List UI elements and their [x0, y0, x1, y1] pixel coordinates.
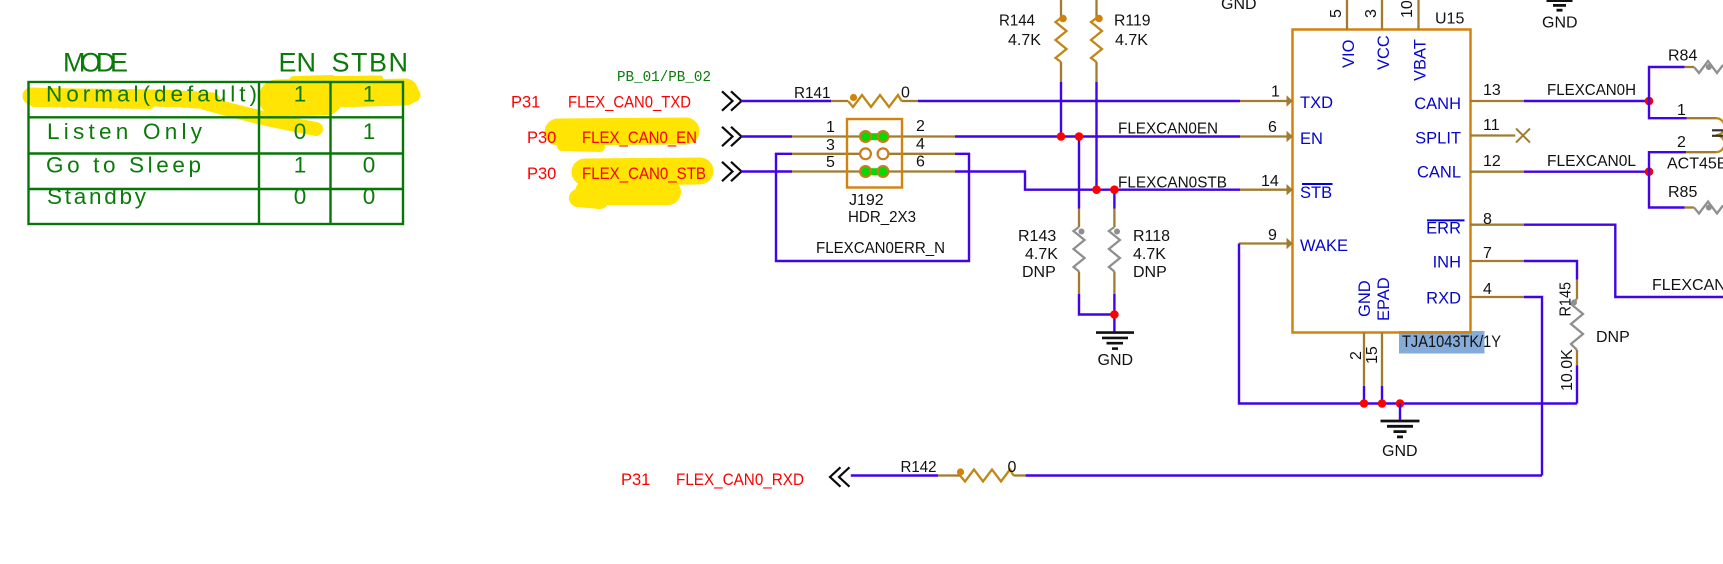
chevron out STB — [722, 162, 742, 181]
wire stub to ground symbol — [1399, 404, 1401, 421]
svg-text:TXD: TXD — [1300, 94, 1333, 112]
ground symbol below R118 — [1096, 333, 1134, 349]
IC U15 box — [1293, 30, 1471, 333]
pin 3 circle — [860, 148, 871, 159]
wire J192 pin 6 to U15 STB — [888, 170, 955, 172]
wire junction to choke pin 2 and R85 — [1649, 152, 1686, 207]
resistor R119 — [1091, 0, 1151, 82]
svg-text:EN: EN — [1300, 130, 1323, 148]
svg-text:11: 11 — [1483, 117, 1500, 134]
svg-text:R143: R143 — [1018, 228, 1056, 245]
svg-text:1: 1 — [826, 119, 835, 136]
svg-text:R141: R141 — [794, 85, 831, 102]
junction GND symbol — [1396, 399, 1405, 408]
svg-text:TJA1043TK/1Y: TJA1043TK/1Y — [1402, 333, 1501, 351]
wire net FLEXCAN0ERR_N loop J192 pin3 to pin4 — [792, 153, 860, 155]
connector J192 HDR_2X3 — [847, 119, 916, 226]
junction GND pin — [1360, 399, 1369, 408]
highlighter mark over table row 1 — [31, 79, 413, 129]
svg-text:2: 2 — [916, 118, 925, 135]
wire TXD R141 to U15 pin 1 — [918, 100, 1240, 102]
mode table — [29, 82, 404, 224]
resistor R84 (partial) — [1668, 48, 1723, 74]
svg-text:GND: GND — [1356, 280, 1374, 317]
svg-text:VBAT: VBAT — [1412, 39, 1430, 81]
svg-text:7: 7 — [1483, 245, 1492, 262]
wire RXD chevron to R142 — [851, 474, 938, 476]
svg-text:4.7K: 4.7K — [1133, 246, 1166, 263]
U15 top pin 5 VIO — [1346, 0, 1348, 30]
svg-text:1: 1 — [363, 119, 376, 144]
svg-text:12: 12 — [1483, 153, 1501, 170]
svg-text:2: 2 — [1677, 134, 1686, 151]
jumper green bar pins 5-6 — [863, 168, 887, 175]
svg-text:FLEX_CAN0_STB: FLEX_CAN0_STB — [582, 165, 706, 183]
junction FLEXCAN0H — [1645, 97, 1654, 106]
svg-text:4: 4 — [916, 136, 925, 153]
mode table header text — [63, 48, 408, 78]
svg-text:R118: R118 — [1133, 228, 1170, 245]
U15 pin 4 RXD stub — [1470, 296, 1524, 298]
svg-text:4.7K: 4.7K — [1008, 32, 1041, 49]
svg-text:5: 5 — [1328, 9, 1345, 18]
svg-text:13: 13 — [1483, 82, 1501, 99]
svg-text:8: 8 — [1483, 211, 1492, 228]
wire U15 GND pin to bus — [1363, 386, 1365, 404]
pin 4 circle — [878, 148, 889, 159]
junction R143/R118/GND — [1110, 310, 1119, 319]
resistor R85 (partial) — [1668, 184, 1723, 214]
svg-text:FLEX_CAN0_EN: FLEX_CAN0_EN — [582, 129, 697, 147]
svg-text:STB: STB — [1300, 184, 1332, 202]
svg-text:P30: P30 — [527, 165, 556, 183]
junction R144/EN — [1057, 132, 1066, 141]
svg-text:J192: J192 — [849, 192, 884, 209]
no-connect X on SPLIT — [1516, 129, 1530, 143]
junction EPAD pin — [1378, 399, 1387, 408]
resistor R142 — [901, 459, 1026, 482]
resistor R141 — [794, 85, 918, 108]
wire EN chevron to J192 pin 1 — [741, 135, 792, 137]
junction R143/EN — [1075, 132, 1084, 141]
svg-text:DNP: DNP — [1596, 329, 1630, 346]
U15 top pin 3 VCC — [1381, 0, 1383, 30]
resistor R143 (DNP) — [1018, 137, 1085, 295]
svg-text:0: 0 — [901, 85, 910, 102]
svg-text:4.7K: 4.7K — [1025, 246, 1058, 263]
svg-text:6: 6 — [916, 154, 925, 171]
svg-text:PB_01/PB_02: PB_01/PB_02 — [617, 69, 711, 86]
svg-text:0: 0 — [1008, 459, 1017, 476]
svg-text:1: 1 — [1271, 84, 1280, 101]
chevron in RXD — [830, 467, 850, 486]
svg-text:0: 0 — [363, 153, 376, 178]
svg-text:R85: R85 — [1668, 184, 1697, 201]
svg-text:ERR: ERR — [1426, 220, 1461, 238]
svg-text:4: 4 — [1483, 281, 1492, 298]
svg-text:6: 6 — [1268, 119, 1277, 136]
svg-text:EN: EN — [279, 48, 317, 78]
ground symbol below U15 — [1381, 421, 1420, 437]
svg-text:1: 1 — [294, 153, 307, 178]
wire R118 bottom to GND — [1113, 294, 1115, 332]
U15 pin 7 INH stub — [1470, 260, 1524, 262]
pin 5 circle — [860, 166, 871, 177]
pin 1 circle — [860, 131, 871, 142]
chevron out TXD — [722, 91, 742, 110]
svg-text:FLEX_CAN0_TXD: FLEX_CAN0_TXD — [568, 94, 691, 112]
svg-text:P31: P31 — [621, 471, 650, 489]
junction R119/STB — [1092, 185, 1101, 194]
svg-text:3: 3 — [1363, 9, 1380, 18]
wire WAKE to GND bus — [1239, 244, 1577, 404]
svg-text:DNP: DNP — [1133, 264, 1167, 281]
svg-text:VCC: VCC — [1375, 35, 1393, 70]
wire J192 pin 2 to U15 EN — [888, 135, 955, 137]
svg-text:1: 1 — [363, 82, 376, 107]
wire CANH to junction — [1524, 100, 1649, 102]
svg-text:R119: R119 — [1114, 13, 1151, 30]
choke ACT45B pin 1 lead — [1687, 117, 1717, 119]
svg-text:GND: GND — [1382, 443, 1418, 460]
U15 pin 11 SPLIT stub — [1470, 134, 1515, 136]
resistor R145 (DNP) — [1558, 280, 1630, 392]
svg-text:10: 10 — [1399, 0, 1416, 18]
resistor R118 (DNP) — [1109, 190, 1170, 294]
svg-text:GND: GND — [1221, 0, 1257, 13]
wire R119 to STB — [1095, 82, 1097, 190]
pin 6 circle — [878, 166, 889, 177]
svg-text:15: 15 — [1364, 346, 1381, 364]
svg-text:GND: GND — [1542, 15, 1578, 32]
svg-text:9: 9 — [1268, 227, 1277, 244]
svg-text:GND: GND — [1098, 352, 1134, 369]
wire ERR to right edge — [1524, 225, 1723, 297]
part value TJA1043TK/1Y with blue selection — [1399, 331, 1485, 354]
svg-text:Standby: Standby — [47, 184, 147, 209]
svg-text:R142: R142 — [901, 459, 937, 476]
svg-text:P31: P31 — [511, 94, 540, 112]
wire R142 to RXD vertical — [1026, 474, 1542, 476]
U15 pin 6 EN stub — [1240, 135, 1292, 137]
U15 bottom pin 2 GND — [1363, 333, 1365, 387]
svg-text:R144: R144 — [999, 13, 1035, 30]
jumper green bar pins 1-2 — [863, 133, 887, 140]
choke core lines — [1712, 130, 1723, 136]
highlighter mark over FLEX_CAN0_EN label — [558, 131, 686, 147]
wire INH to R145 — [1524, 261, 1577, 280]
chevron out EN — [722, 127, 742, 146]
svg-text:1: 1 — [294, 82, 307, 107]
resistor R144 — [999, 0, 1067, 82]
mode table rows text — [46, 82, 375, 210]
svg-text:0: 0 — [363, 184, 376, 209]
svg-text:FLEXCAN0ERR_N: FLEXCAN0ERR_N — [1652, 277, 1723, 294]
wire U15 EPAD pin to bus — [1381, 386, 1383, 404]
svg-text:HDR_2X3: HDR_2X3 — [848, 209, 916, 226]
svg-text:R145: R145 — [1558, 282, 1575, 317]
svg-text:FLEXCAN0EN: FLEXCAN0EN — [1118, 121, 1218, 138]
svg-text:3: 3 — [826, 137, 835, 154]
svg-text:CANL: CANL — [1417, 164, 1461, 182]
svg-text:5: 5 — [826, 154, 835, 171]
svg-text:VIO: VIO — [1340, 39, 1358, 68]
svg-text:0: 0 — [294, 119, 307, 144]
U15 top pin 10 VBAT — [1417, 0, 1419, 30]
wire STB chevron to J192 pin 5 — [741, 170, 792, 172]
wire R144 to EN — [1060, 82, 1062, 137]
U15 pin 13 CANH stub — [1470, 100, 1524, 102]
svg-text:0: 0 — [294, 184, 307, 209]
svg-text:FLEX_CAN0_RXD: FLEX_CAN0_RXD — [676, 471, 804, 489]
ground symbol top right (clipped) — [1540, 0, 1579, 10]
wire RXD down to bottom — [1524, 297, 1542, 476]
svg-text:CANH: CANH — [1414, 95, 1461, 113]
svg-text:FLEXCAN0L: FLEXCAN0L — [1547, 153, 1636, 170]
junction R118/STB — [1110, 185, 1119, 194]
U15 pin 14 STB stub — [1240, 189, 1292, 191]
U15 pin 8 ERR stub — [1470, 224, 1524, 226]
U15 bottom pin 15 EPAD — [1381, 333, 1383, 387]
U15 pin 9 WAKE stub — [1239, 242, 1292, 244]
wire CANL to junction — [1524, 170, 1649, 172]
wire R145 to GND bus — [1576, 366, 1578, 404]
junction FLEXCAN0L — [1645, 167, 1654, 176]
svg-text:WAKE: WAKE — [1300, 237, 1348, 255]
svg-text:INH: INH — [1433, 254, 1461, 272]
wire R143 bottom to GND junction — [1079, 294, 1114, 315]
svg-text:14: 14 — [1261, 173, 1279, 190]
svg-text:P30: P30 — [527, 129, 556, 147]
svg-text:SPLIT: SPLIT — [1415, 130, 1461, 148]
svg-text:10.0K: 10.0K — [1559, 349, 1576, 391]
pin 2 circle — [878, 131, 889, 142]
highlighter mark over FLEX_CAN0_STB label — [578, 171, 700, 200]
svg-text:EPAD: EPAD — [1375, 277, 1393, 321]
choke ACT45B windings (partial at edge) — [1716, 118, 1723, 152]
svg-text:FLEXCAN0ERR_N: FLEXCAN0ERR_N — [816, 240, 945, 257]
svg-text:1: 1 — [1677, 102, 1686, 119]
U15 pin 12 CANL stub — [1470, 171, 1524, 173]
svg-text:Go to Sleep: Go to Sleep — [46, 153, 201, 178]
wire TXD chevron to R141 — [741, 100, 831, 102]
svg-text:FLEXCAN0STB: FLEXCAN0STB — [1118, 175, 1227, 192]
choke pin 2 lead — [1686, 151, 1716, 153]
U15 pin 1 TXD stub — [1240, 100, 1292, 102]
svg-text:FLEXCAN0H: FLEXCAN0H — [1547, 82, 1636, 99]
svg-text:ACT45B: ACT45B — [1667, 156, 1723, 173]
svg-text:R84: R84 — [1668, 48, 1697, 65]
wire junction to R84 and choke pin 1 — [1649, 67, 1687, 118]
svg-text:STBN: STBN — [332, 48, 409, 78]
svg-text:MODE: MODE — [63, 48, 128, 78]
svg-text:RXD: RXD — [1426, 290, 1461, 308]
svg-text:DNP: DNP — [1022, 264, 1056, 281]
svg-text:2: 2 — [1348, 351, 1365, 360]
svg-text:4.7K: 4.7K — [1115, 32, 1148, 49]
svg-text:U15: U15 — [1435, 11, 1464, 28]
